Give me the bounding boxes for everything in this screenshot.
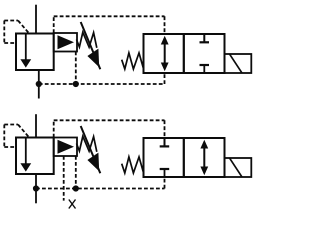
node: junction dot on drain gallery	[73, 81, 79, 87]
wire: outlet line (bottom)	[38, 70, 40, 99]
pilot line: top dashed run from B2 to valve V2	[54, 120, 165, 138]
blocked port T (top) in V1 right square	[200, 34, 210, 42]
double-headed flow arrow in V2 right square	[200, 140, 208, 176]
adjustable spring Z2	[77, 136, 97, 152]
blocked port T (top) in V2 left square	[160, 138, 170, 146]
blocked port T (bottom) in V2 left square	[160, 169, 170, 177]
valve V1 right position square (blocked)	[184, 34, 225, 73]
valve body PV1	[16, 34, 54, 71]
wire: outlet line (bottom)	[35, 174, 37, 203]
return spring of V2 (left)	[122, 157, 144, 173]
double-headed flow arrow in V1 left square	[161, 36, 169, 72]
pilot line: drain drop from solenoid B2 to port x (dashed)	[63, 156, 65, 201]
return spring of V1 (left)	[122, 53, 144, 69]
node: junction dot on outlet	[33, 185, 39, 191]
flow arrow inside PV1 (downward)	[20, 34, 31, 67]
wire: inlet line P2 (top)	[35, 114, 37, 137]
solenoid SOL1 of V1 (right)	[225, 54, 252, 73]
valve V1 left position square (open, double arrow)	[144, 34, 184, 73]
valve V2 right position square (open, double arrow)	[184, 138, 225, 177]
proportional solenoid box B2	[54, 138, 77, 157]
pilot line: top dashed run from B1 to valve V1	[54, 16, 165, 34]
adjustment arrow across spring Z2	[81, 126, 101, 173]
pilot line: drop from solenoid B2 to drain gallery (dashed)	[75, 156, 77, 189]
proportional solenoid box B1	[54, 33, 77, 52]
node: junction dot on outlet	[36, 81, 42, 87]
pilot line: bottom dashed gallery to valve V2	[36, 188, 165, 190]
pilot line loop (dashed) on left of PV2	[4, 125, 28, 148]
blocked port T (bottom) in V1 right square	[200, 65, 210, 73]
pilot line loop (dashed) on left of PV1	[4, 21, 28, 44]
wire: inlet line P1 (top)	[35, 5, 37, 34]
port label x	[69, 200, 76, 209]
solenoid triangle inside B1	[58, 35, 75, 49]
adjustable spring Z1	[77, 32, 97, 48]
valve V2 left position square (blocked)	[144, 138, 184, 177]
node: junction dot on drain gallery row 2	[73, 185, 79, 191]
valve body PV2	[16, 138, 54, 175]
adjustment arrow across spring Z1	[81, 22, 101, 69]
solenoid SOL2 of V2 (right)	[225, 158, 252, 177]
pilot line: drop from solenoid B1 to drain gallery (dashed)	[75, 52, 77, 85]
flow arrow inside PV2 (downward)	[20, 138, 31, 171]
pilot line: bottom dashed gallery to valve V1	[39, 83, 165, 85]
solenoid triangle inside B2	[58, 140, 75, 154]
